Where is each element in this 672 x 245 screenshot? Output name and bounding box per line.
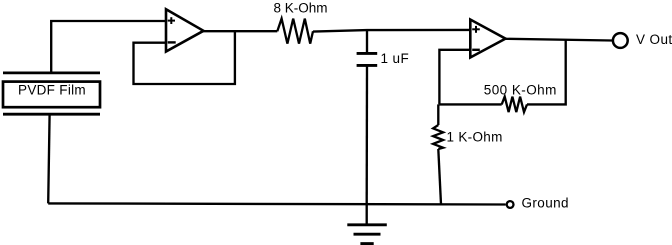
resistor R2 500 K-Ohm <box>484 83 557 113</box>
wire R3 bottom to ground bus <box>438 149 441 204</box>
op-amp U2 <box>470 20 505 58</box>
wire cap bottom to ground bus <box>366 65 369 204</box>
terminal Ground <box>507 196 569 211</box>
wire PVDF bottom to ground bus <box>48 114 49 203</box>
resistor R1 8 K-Ohm <box>273 0 327 43</box>
sensor PVDF Film <box>3 73 100 114</box>
op-amp U1 <box>166 9 204 51</box>
ground symbol <box>347 204 387 244</box>
svg-text:8 K-Ohm: 8 K-Ohm <box>273 0 327 15</box>
wire ground bus <box>48 203 505 204</box>
wire U1 feedback loop (output to - input) <box>134 31 235 84</box>
svg-text:Ground: Ground <box>522 196 569 211</box>
wire U2 output to V Out terminal <box>505 39 612 41</box>
wire U1 output to R1 <box>203 30 277 32</box>
capacitor C1 1 uF <box>357 51 410 66</box>
wire cap top tap <box>366 30 368 53</box>
svg-text:500 K-Ohm: 500 K-Ohm <box>484 83 557 98</box>
svg-text:1 K-Ohm: 1 K-Ohm <box>447 130 503 145</box>
resistor R3 1 K-Ohm <box>433 125 503 149</box>
svg-text:1 uF: 1 uF <box>381 51 410 66</box>
wire node to R3 top <box>437 104 439 125</box>
svg-text:PVDF Film: PVDF Film <box>18 83 86 98</box>
terminal V Out <box>613 32 672 48</box>
wire U2 - input to feedback node <box>439 50 470 105</box>
wire PVDF top to U1 + input <box>51 21 166 73</box>
wire R2 right to U2 output <box>527 39 566 104</box>
wire node to R2 left <box>439 103 501 105</box>
svg-text:V Out: V Out <box>636 32 672 47</box>
wire R1 to U2 + input <box>313 30 470 32</box>
